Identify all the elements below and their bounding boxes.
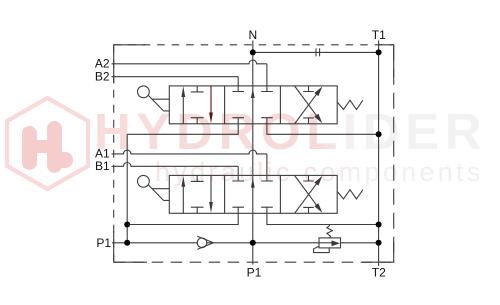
valve DCV2 pos1 up arrowhead <box>181 176 185 187</box>
enclosure dashed boundary right <box>393 45 395 262</box>
enclosure dashed boundary top <box>114 44 394 46</box>
valve DCV2 pos3 blocked port bottom <box>303 207 314 213</box>
wire B1 horizontal with hop <box>112 163 239 167</box>
valve DCV1 return spring <box>337 100 363 109</box>
valve DCV2 return spring <box>337 190 363 199</box>
valve DCV2 divider 1 <box>224 175 226 213</box>
relief valve RV1 body <box>319 238 341 248</box>
valve DCV1 pos3 blocked port top <box>303 86 314 92</box>
wire B2 horizontal <box>112 76 239 78</box>
relief valve RV1 spring <box>327 225 333 238</box>
svg-text:T1: T1 <box>372 28 386 42</box>
valve DCV2 pos1 blocked port top <box>191 175 204 181</box>
svg-text:B1: B1 <box>95 159 110 173</box>
svg-text:P1: P1 <box>247 265 262 279</box>
valve DCV1 pos2 up arrowhead <box>251 89 255 98</box>
valve DCV2 pos3 cross arrow A shaft <box>295 182 318 213</box>
relief valve RV1 arrowhead <box>332 240 341 246</box>
wire N to T1 horizontal <box>253 51 379 53</box>
boundary corner solid top-left <box>114 45 146 84</box>
junction dot riser valve2 feed <box>124 222 130 228</box>
wire valve1 P feed <box>127 118 238 135</box>
valve DCV2 pos3 blocked port top <box>303 175 314 181</box>
enclosure dashed boundary bottom <box>114 261 394 263</box>
wire valve2 tank return <box>267 207 379 224</box>
wire A2 drop to valve 1 <box>266 64 268 92</box>
valve DCV1 pos1 blocked port bottom <box>191 118 204 124</box>
valve DCV2 pos1 up arrow shaft <box>182 185 184 214</box>
svg-text:B2: B2 <box>95 70 110 84</box>
valve DCV1 divider 2 <box>279 86 281 124</box>
boundary corner solid top-right <box>378 45 394 77</box>
valve DCV1 pos3 cross arrow A shaft <box>295 93 318 124</box>
junction dot T1 top <box>376 49 382 55</box>
watermark logo hexagon <box>7 98 88 189</box>
valve DCV1 pos1 down arrowhead (red) <box>209 113 213 124</box>
wire N vertical <box>252 41 254 265</box>
valve DCV1 pos2 blocked ports bottom <box>232 117 272 119</box>
wire B2 drop to valve 1 <box>237 77 239 92</box>
boundary corner solid bottom-right <box>362 242 394 262</box>
wire T1 vertical <box>378 41 380 267</box>
valve DCV2 lever linkage <box>148 185 169 201</box>
valve DCV2 pos1 down arrow shaft <box>210 175 212 202</box>
junction dot N <box>250 49 256 55</box>
relief valve RV1 flow line <box>319 242 333 244</box>
svg-text:T2: T2 <box>372 265 386 279</box>
enclosure dashed boundary left <box>113 45 115 262</box>
svg-text:A2: A2 <box>95 57 110 71</box>
valve DCV2 body <box>169 175 337 213</box>
valve DCV1 pos1 up arrow shaft <box>182 95 184 124</box>
valve DCV2 pos3 cross arrow B shaft <box>295 176 318 207</box>
valve DCV1 pos2 blocked ports top <box>232 91 272 93</box>
relief valve RV1 pilot line <box>314 246 330 252</box>
valve DCV1 pos3 arrowhead B <box>314 114 322 124</box>
junction dot P1 T line <box>376 240 382 246</box>
valve DCV2 pos3 arrowhead B <box>314 203 322 213</box>
wire A2 horizontal with hop <box>112 60 267 64</box>
wire valve1 tank return <box>267 118 379 135</box>
valve DCV2 pos3 arrowhead A <box>314 176 322 186</box>
junction dot valve1 tank <box>376 131 382 137</box>
junction dot P1 riser <box>124 240 130 246</box>
valve DCV1 lever knob <box>138 86 150 98</box>
boundary corner solid bottom-left <box>114 231 147 262</box>
valve DCV2 pos2 blocked ports bottom <box>232 206 272 208</box>
watermark logo HL monogram <box>22 121 73 173</box>
svg-text:N: N <box>248 28 257 42</box>
valve DCV1 pos3 arrowhead A <box>314 87 322 97</box>
valve DCV1 pos1 up arrowhead <box>181 86 185 97</box>
valve DCV2 pos1 blocked port bottom <box>191 207 204 213</box>
valve DCV2 pos1 down arrowhead <box>209 202 213 213</box>
valve DCV2 lever knob <box>138 175 150 187</box>
valve DCV1 body <box>169 86 337 124</box>
valve DCV1 divider 1 <box>224 86 226 124</box>
valve DCV1 pos1 blocked port top <box>191 86 204 92</box>
check valve CV1 seat <box>197 236 213 249</box>
junction dot P1 center <box>250 240 256 246</box>
valve DCV1 pos3 blocked port bottom <box>303 118 314 124</box>
wire P1 main line <box>112 242 379 244</box>
wire A1 drop to valve 2 <box>266 154 268 181</box>
wire B1 drop to valve 2 <box>237 166 239 181</box>
wire pressure riser vertical <box>126 134 128 243</box>
check valve CV1 poppet <box>197 238 207 248</box>
wire A1 horizontal with hops <box>112 150 267 154</box>
valve DCV2 divider 2 <box>279 175 281 213</box>
valve DCV1 pos1 down arrow shaft (red) <box>210 86 212 113</box>
valve DCV1 pos3 cross arrow B shaft <box>295 86 318 117</box>
svg-text:HYDROLIDER: HYDROLIDER <box>94 103 487 160</box>
wire valve2 P feed <box>127 207 238 224</box>
junction dot valve2 tank <box>376 222 382 228</box>
svg-text:P1: P1 <box>96 236 111 250</box>
valve DCV1 lever linkage <box>148 95 169 111</box>
valve DCV2 pos2 up arrowhead <box>251 178 255 188</box>
valve DCV2 pos2 blocked ports top <box>232 180 272 182</box>
plug symbol on N-T1 line <box>315 48 317 56</box>
